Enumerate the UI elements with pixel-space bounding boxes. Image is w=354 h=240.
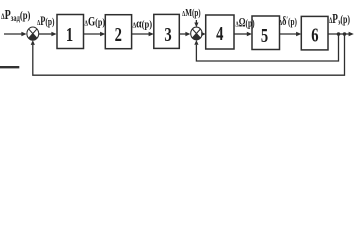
wire S2 to block 4 [201, 32, 206, 36]
stray dark bar artifact bottom left [0, 66, 19, 68]
svg-text:4: 4 [216, 22, 224, 45]
node junction dot B on output wire [343, 32, 347, 36]
svg-text:1: 1 [66, 23, 73, 46]
node junction dot A on output wire [337, 32, 341, 36]
block 6 [301, 16, 328, 50]
wire block 5 to block 6 [280, 32, 302, 36]
summing junction S2 [191, 27, 202, 40]
svg-text:5: 5 [261, 24, 269, 47]
wire disturbance M into S2 from top [194, 20, 198, 27]
block 5 [252, 16, 280, 50]
block 3 [154, 14, 180, 48]
wire inner feedback from node A to S2 [194, 34, 338, 61]
wire block 4 to block 5 [234, 32, 252, 36]
block 1 [57, 15, 84, 49]
block 4 [206, 15, 234, 49]
svg-text:ΔM(p): ΔM(p) [182, 7, 201, 19]
wire block 1 to block 2 [84, 32, 106, 36]
svg-text:Δα(p): Δα(p) [133, 17, 153, 30]
wire output from block 6 [328, 32, 354, 36]
svg-text:ΔG(p): ΔG(p) [85, 15, 106, 29]
wire block 2 to block 3 [132, 32, 154, 36]
svg-text:6: 6 [311, 23, 319, 46]
svg-text:Δδ′(p): Δδ′(p) [279, 15, 297, 29]
block 2 [105, 15, 131, 49]
svg-text:2: 2 [115, 23, 122, 46]
svg-text:ΔP(p): ΔP(p) [37, 14, 55, 28]
wire S1 to block 1 [39, 32, 57, 36]
wire outer feedback from node B to S1 [31, 34, 345, 75]
wire input to summer S1 [4, 32, 27, 36]
svg-text:ΔPзад(p): ΔPзад(p) [1, 6, 31, 23]
summing junction S1 [27, 27, 39, 40]
svg-text:ΔΩ(p): ΔΩ(p) [236, 16, 255, 30]
svg-text:3: 3 [164, 23, 172, 46]
svg-text:ΔPэ(p): ΔPэ(p) [329, 10, 350, 27]
wire block 3 to summer S2 [179, 32, 190, 36]
